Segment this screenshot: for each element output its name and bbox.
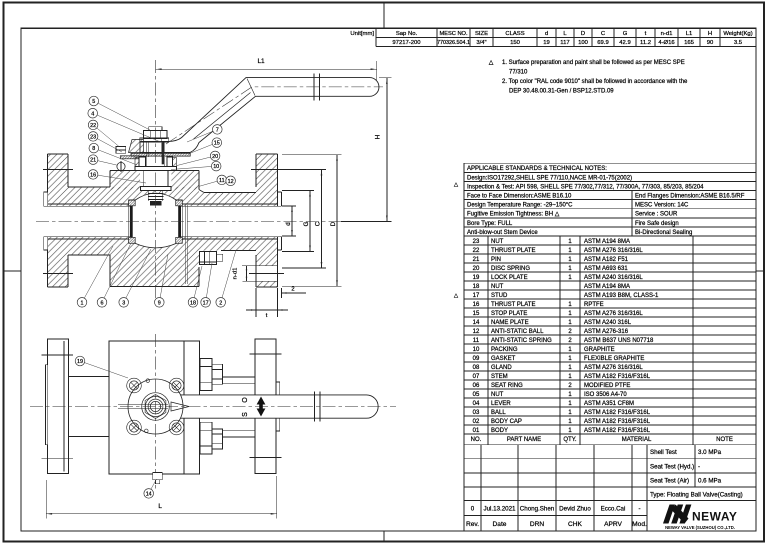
svg-text:3: 3 [122, 300, 125, 306]
svg-text:17: 17 [203, 300, 209, 306]
top view body cap bolts [200, 359, 223, 455]
svg-text:05: 05 [473, 392, 480, 398]
drain boss studs 17 18 [199, 252, 222, 265]
svg-text:1: 1 [81, 300, 84, 306]
top view right neck [223, 377, 255, 437]
dimension d [282, 206, 296, 236]
svg-text:STOP PLATE: STOP PLATE [491, 311, 527, 317]
body cap 02 right flange hatched [256, 154, 278, 287]
top view stem centreline [155, 334, 157, 490]
svg-text:770326.504.1: 770326.504.1 [437, 40, 470, 46]
svg-text:C: C [314, 221, 321, 226]
balloon 11 [199, 175, 227, 186]
svg-text:LOCK PLATE: LOCK PLATE [491, 275, 528, 281]
svg-text:D: D [330, 221, 337, 226]
svg-text:16: 16 [473, 302, 480, 308]
svg-text:17: 17 [473, 293, 480, 299]
top view lever pointer [118, 402, 189, 411]
surface preparation notes [489, 60, 688, 95]
svg-text:12: 12 [228, 179, 234, 185]
svg-text:H: H [708, 31, 712, 37]
svg-text:Design:ISO17292,SHELL SPE 77/1: Design:ISO17292,SHELL SPE 77/110,NACE MR… [467, 175, 632, 181]
lever centreline [166, 87, 383, 144]
svg-text:THRUST PLATE: THRUST PLATE [491, 248, 535, 254]
balloon 8 [89, 143, 137, 165]
svg-text:ASTM A194 8MA: ASTM A194 8MA [584, 239, 630, 245]
stem nut 05 [144, 131, 167, 139]
svg-text:NO.: NO. [471, 437, 482, 443]
svg-text:5: 5 [92, 99, 95, 105]
svg-text:90: 90 [707, 40, 714, 46]
svg-text:GRAPHITE: GRAPHITE [584, 347, 615, 353]
svg-text:23: 23 [473, 239, 480, 245]
svg-text:Anti-blow-out Stem Device: Anti-blow-out Stem Device [467, 230, 538, 236]
svg-text:19: 19 [473, 275, 480, 281]
svg-text:2. Top color "RAL code 9010" s: 2. Top color "RAL code 9010" shall be fo… [502, 79, 688, 85]
svg-text:ASTM A182 F316/F316L: ASTM A182 F316/F316L [584, 374, 651, 380]
svg-text:RPTFE: RPTFE [584, 302, 604, 308]
svg-text:3.0 MPa: 3.0 MPa [698, 449, 722, 456]
svg-text:CHK: CHK [568, 521, 583, 528]
balloon 18 [188, 266, 202, 307]
svg-text:MESC NO.: MESC NO. [439, 31, 468, 37]
svg-text:08: 08 [473, 365, 480, 371]
lever break marks [314, 74, 320, 101]
svg-text:ASTM A240 316/316L: ASTM A240 316/316L [584, 275, 643, 281]
packing box right disc spring 20 [167, 157, 173, 167]
dimension D [282, 155, 342, 286]
balloon 5 [89, 96, 150, 130]
svg-text:150: 150 [510, 40, 521, 46]
stem 07 [147, 138, 165, 157]
name plate screw 14 [153, 473, 162, 484]
svg-text:ASTM A182 F316/F316L: ASTM A182 F316/F316L [584, 410, 651, 416]
svg-text:18: 18 [190, 300, 196, 306]
svg-text:Unit[mm]: Unit[mm] [350, 31, 374, 37]
stuffing box walls [135, 158, 176, 168]
test and revision table [464, 445, 756, 531]
svg-text:L1: L1 [257, 58, 265, 65]
svg-text:ASTM B637 UNS N07718: ASTM B637 UNS N07718 [584, 338, 654, 344]
right flange outline [256, 154, 278, 287]
svg-text:3/4": 3/4" [476, 40, 486, 46]
main view pipe centreline [36, 221, 390, 223]
svg-text:1. Surface preparation and pai: 1. Surface preparation and paint shall b… [502, 60, 685, 66]
svg-text:H: H [375, 134, 382, 139]
balloon 9 [155, 254, 169, 307]
svg-text:ASTM A351 CF8M: ASTM A351 CF8M [584, 401, 634, 407]
open shut labels [242, 397, 249, 417]
wall bands hatched [68, 187, 256, 255]
svg-text:Inspection & Test: API 598, SH: Inspection & Test: API 598, SHELL SPE 77… [467, 184, 704, 190]
bottom block outline [110, 255, 199, 287]
svg-text:Rev.: Rev. [466, 521, 479, 528]
right raised face outline [278, 192, 282, 250]
balloon 4 [88, 108, 163, 143]
svg-text:MATERIAL: MATERIAL [622, 437, 652, 443]
main view stem centreline [155, 60, 157, 301]
stop tab serrated [120, 156, 139, 159]
svg-text:Bore Type: FULL: Bore Type: FULL [467, 221, 513, 227]
svg-text:C: C [601, 31, 606, 37]
svg-text:14: 14 [473, 320, 480, 326]
svg-text:Design Temperature Range: -29~: Design Temperature Range: -29~150°C [467, 203, 573, 209]
svg-text:NUT: NUT [491, 392, 504, 398]
svg-text:Devid Zhuo: Devid Zhuo [559, 506, 591, 513]
svg-text:15: 15 [473, 311, 480, 317]
svg-text:97217-200: 97217-200 [392, 40, 421, 46]
svg-text:ASTM A276 316/316L: ASTM A276 316/316L [584, 248, 643, 254]
packing box left [139, 157, 145, 167]
stem into ball [148, 191, 163, 201]
svg-text:THRUST PLATE: THRUST PLATE [491, 302, 535, 308]
svg-text:NUT: NUT [491, 239, 504, 245]
svg-text:ASTM A182 F51: ASTM A182 F51 [584, 257, 629, 263]
body 01 left flange hatched [48, 154, 68, 287]
dimension L [46, 476, 277, 518]
balloon 21 [88, 155, 116, 165]
svg-text:SEAT RING: SEAT RING [491, 383, 523, 389]
header dimension table [376, 28, 756, 46]
gland plate 08 [135, 166, 176, 170]
balloon 23 [88, 132, 122, 152]
svg-text:PIN: PIN [491, 257, 501, 263]
svg-text:14: 14 [146, 492, 152, 498]
svg-text:Mod.: Mod. [632, 521, 647, 528]
svg-text:NAME PLATE: NAME PLATE [491, 320, 529, 326]
svg-text:BALL: BALL [491, 410, 506, 416]
svg-text:STUD: STUD [491, 293, 508, 299]
svg-text:07: 07 [473, 374, 480, 380]
svg-text:06: 06 [473, 383, 480, 389]
top view stop plate circle white [128, 379, 183, 434]
top view left neck [69, 377, 110, 437]
gland pin 21 [117, 161, 125, 172]
svg-text:End Flanges Dimension:ASME B16: End Flanges Dimension:ASME B16.5/RF [635, 194, 745, 200]
balloon 16 [88, 170, 146, 183]
svg-text:10: 10 [473, 347, 480, 353]
svg-text:ASTM A276 316/316L: ASTM A276 316/316L [584, 311, 643, 317]
left centre fold mark [4, 270, 22, 272]
right centre fold mark [756, 270, 764, 272]
svg-text:L1: L1 [686, 31, 693, 37]
svg-text:2: 2 [219, 300, 222, 306]
svg-text:69.9: 69.9 [597, 40, 608, 46]
bottom body block hatched [110, 255, 199, 287]
svg-text:ASTM A194 8MA: ASTM A194 8MA [584, 284, 630, 290]
svg-text:d: d [285, 222, 292, 226]
svg-text:4-Ø16: 4-Ø16 [658, 40, 675, 46]
svg-text:NOTE: NOTE [716, 437, 733, 443]
svg-text:0.6 MPa: 0.6 MPa [698, 478, 722, 485]
svg-text:ASTM A276 316/316L: ASTM A276 316/316L [584, 365, 643, 371]
svg-text:Bi-Directional Sealing: Bi-Directional Sealing [635, 230, 692, 236]
stem ball connection anti-static 11 12 [148, 194, 164, 206]
left raised face outline [44, 192, 48, 250]
lever 04 [140, 78, 379, 153]
top view body cap joint line [183, 341, 185, 474]
svg-text:02: 02 [473, 419, 480, 425]
svg-text:Ecco.Cai: Ecco.Cai [601, 506, 626, 513]
technical notes table [464, 163, 756, 236]
stem tip [149, 127, 162, 131]
balloon 6 [97, 243, 131, 307]
svg-text:G: G [303, 221, 310, 226]
svg-text:3.5: 3.5 [734, 40, 743, 46]
balloon 20 [177, 151, 220, 165]
svg-text:APPLICABLE STANDARDS & TECHNIC: APPLICABLE STANDARDS & TECHNICAL NOTES: [467, 166, 607, 172]
svg-text:Shell Test: Shell Test [650, 449, 677, 456]
svg-text:ANTI-STATIC BALL: ANTI-STATIC BALL [491, 329, 544, 335]
svg-text:D: D [581, 31, 585, 37]
NEWAY logo [663, 505, 737, 530]
svg-text:Type: Floating Ball Valve(Cast: Type: Floating Ball Valve(Casting) [650, 491, 743, 498]
svg-text:23: 23 [90, 135, 96, 141]
thrust plate 16 [141, 187, 171, 191]
top view pipe centreline [30, 406, 396, 408]
balloon 15 [190, 138, 222, 154]
svg-text:22: 22 [90, 123, 96, 129]
svg-text:Service : SOUR: Service : SOUR [635, 212, 678, 218]
svg-text:Face to Face Dimension:ASME B1: Face to Face Dimension:ASME B16.10 [467, 194, 572, 200]
svg-text:n-d1: n-d1 [661, 31, 673, 37]
svg-text:n-d1: n-d1 [233, 268, 239, 280]
top view right flange [255, 339, 280, 474]
svg-text:Seat Test (Air): Seat Test (Air) [650, 478, 689, 485]
svg-text:S: S [242, 412, 249, 417]
svg-text:BODY: BODY [491, 428, 508, 434]
top view left flange [45, 339, 68, 474]
svg-text:△: △ [454, 182, 459, 188]
svg-text:77/310: 77/310 [509, 70, 528, 76]
svg-text:△: △ [489, 60, 494, 66]
svg-text:ASTM A276-316: ASTM A276-316 [584, 329, 629, 335]
dimension H [341, 78, 392, 222]
svg-text:Date: Date [493, 521, 507, 528]
dimension G [282, 191, 314, 252]
svg-text:GASKET: GASKET [491, 356, 516, 362]
stem shoulder [143, 171, 168, 187]
svg-text:DRN: DRN [530, 521, 545, 528]
svg-text:Sap No.: Sap No. [396, 31, 418, 37]
balloon 22 [88, 120, 119, 146]
ball 03 pocket arc [135, 243, 177, 248]
svg-text:G: G [623, 31, 628, 37]
balloon 1 [77, 246, 113, 307]
svg-text:LEVER: LEVER [491, 401, 511, 407]
svg-text:21: 21 [90, 158, 96, 164]
svg-text:01: 01 [473, 428, 480, 434]
svg-text:2: 2 [291, 287, 294, 293]
dimension n-d1 [233, 266, 248, 282]
svg-text:BODY CAP: BODY CAP [491, 419, 522, 425]
svg-text:ASTM A182 F316/F316L: ASTM A182 F316/F316L [584, 428, 651, 434]
svg-text:PACKING: PACKING [491, 347, 518, 353]
balloon 14 [144, 479, 157, 498]
svg-text:DEP 30.48.00.31-Gen / BSP12.ST: DEP 30.48.00.31-Gen / BSP12.STD.09 [509, 89, 614, 95]
stem mid section [147, 157, 165, 167]
seat contact bars [130, 206, 181, 238]
open shut arrow [257, 397, 266, 417]
svg-text:-: - [698, 463, 700, 470]
balloon 3 [119, 249, 151, 307]
svg-text:10: 10 [213, 164, 219, 170]
svg-text:21: 21 [473, 257, 480, 263]
balloon 17 [201, 263, 212, 307]
svg-text:19: 19 [543, 40, 550, 46]
balloon 12 [226, 176, 236, 186]
svg-text:Fire Safe design: Fire Safe design [635, 221, 679, 227]
svg-text:Jul.13.2021: Jul.13.2021 [484, 506, 517, 513]
svg-text:20: 20 [212, 154, 218, 160]
body cap gasket joint 09 [185, 205, 187, 284]
svg-text:CLASS: CLASS [505, 31, 524, 37]
balloon 2 [216, 250, 236, 307]
lever bend inner lines [194, 79, 256, 140]
svg-text:04: 04 [473, 401, 480, 407]
balloon 7 [187, 125, 222, 142]
dimension C [282, 170, 326, 269]
packing strip 10 [162, 142, 165, 164]
stop plate 15 [131, 153, 190, 156]
svg-text:20: 20 [473, 266, 480, 272]
parts list table [464, 236, 756, 445]
svg-text:ASTM A693 631: ASTM A693 631 [584, 266, 628, 272]
ball 03 top arc [135, 193, 178, 200]
bottom centre fold mark [383, 531, 385, 542]
flange bolt centre marks [43, 170, 284, 274]
svg-text:ASTM A182 F316/F316L: ASTM A182 F316/F316L [584, 419, 651, 425]
svg-text:APRV: APRV [604, 521, 622, 528]
svg-text:42.9: 42.9 [619, 40, 630, 46]
svg-text:DISC SPRING: DISC SPRING [491, 266, 530, 272]
svg-text:O: O [242, 397, 249, 403]
svg-text:165: 165 [684, 40, 695, 46]
ball cavity walls [129, 200, 183, 243]
svg-text:9: 9 [158, 300, 161, 306]
top centre fold mark [383, 3, 385, 29]
svg-text:ANTI-STATIC SPRING: ANTI-STATIC SPRING [491, 338, 552, 344]
top view flange bolt marks [41, 354, 281, 459]
svg-text:22: 22 [473, 248, 480, 254]
svg-text:0: 0 [471, 506, 475, 513]
bonnet outline [110, 170, 204, 192]
svg-text:-: - [638, 506, 640, 513]
svg-text:NUT: NUT [491, 284, 504, 290]
svg-text:FLEXIBLE GRAPHITE: FLEXIBLE GRAPHITE [584, 356, 644, 362]
svg-text:Fugitive Emission Tightness: B: Fugitive Emission Tightness: BH △ [467, 212, 560, 218]
svg-text:ASTM A240 316L: ASTM A240 316L [584, 320, 632, 326]
svg-text:MODIFIED PTFE: MODIFIED PTFE [584, 383, 630, 389]
top view body square [109, 341, 200, 474]
neck outer lines [68, 187, 256, 255]
white cuts [44, 152, 282, 281]
dimension 2 raised face [278, 287, 307, 299]
svg-text:Seat Test (Hyd.): Seat Test (Hyd.) [650, 463, 694, 470]
svg-text:19: 19 [77, 359, 83, 365]
svg-text:6: 6 [101, 300, 104, 306]
svg-text:8: 8 [92, 146, 95, 152]
dimension t [246, 288, 288, 319]
svg-text:12: 12 [473, 329, 480, 335]
svg-text:QTY.: QTY. [563, 437, 577, 443]
svg-text:11: 11 [219, 178, 225, 184]
right flange bolt hole lines [242, 266, 278, 282]
seat ring blocks 06 [129, 200, 183, 243]
svg-text:09: 09 [473, 356, 480, 362]
svg-text:L: L [158, 503, 162, 510]
balloon 10 [171, 161, 221, 171]
svg-text:4: 4 [91, 111, 94, 117]
balloon 19 [75, 356, 128, 378]
svg-text:7: 7 [216, 128, 219, 134]
svg-text:STEM: STEM [491, 374, 508, 380]
svg-text:117: 117 [560, 40, 569, 46]
svg-text:NEWAY VALVE (SUZHOU) CO.,LTD.: NEWAY VALVE (SUZHOU) CO.,LTD. [665, 525, 735, 530]
stop pin block 22 23 [116, 146, 126, 153]
svg-text:Weight(Kg): Weight(Kg) [723, 31, 752, 37]
bore wall lines [44, 204, 282, 239]
svg-text:Chong.Shen: Chong.Shen [520, 506, 555, 513]
svg-text:16: 16 [90, 173, 96, 179]
top view gland bolts [127, 378, 184, 435]
svg-text:11: 11 [473, 338, 480, 344]
top view stem circles [142, 393, 170, 421]
svg-text:11.2: 11.2 [640, 40, 651, 46]
svg-text:NEWAY: NEWAY [692, 510, 737, 524]
svg-text:△: △ [454, 293, 459, 299]
svg-text:PART NAME: PART NAME [507, 437, 541, 443]
lock washer 19 [140, 138, 169, 142]
svg-text:MESC Version: 14C: MESC Version: 14C [635, 203, 689, 209]
bonnet block hatched [110, 170, 199, 189]
svg-text:100: 100 [578, 40, 589, 46]
svg-text:GLAND: GLAND [491, 365, 512, 371]
left flange outline [48, 154, 68, 287]
lever hub section hatched [129, 140, 144, 153]
svg-text:SIZE: SIZE [475, 31, 488, 37]
svg-text:ISO 3506 A4-70: ISO 3506 A4-70 [584, 392, 627, 398]
svg-text:d: d [545, 31, 548, 37]
svg-text:ASTM A193 B8M, CLASS-1: ASTM A193 B8M, CLASS-1 [584, 293, 659, 299]
top view lever 04 [179, 392, 378, 422]
dimension L1 [156, 58, 377, 80]
svg-text:18: 18 [473, 284, 480, 290]
svg-text:15: 15 [214, 141, 220, 147]
svg-text:03: 03 [473, 410, 480, 416]
